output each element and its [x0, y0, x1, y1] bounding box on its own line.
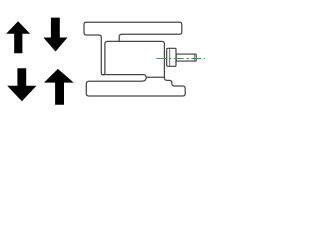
boss (contact pad) left side rising to the bar	[119, 34, 122, 41]
arrow up (top-left)	[6, 21, 30, 53]
connector flange	[167, 48, 176, 66]
stud end cap line	[193, 54, 195, 61]
connector stud	[176, 54, 196, 61]
top mounting bar	[84, 22, 182, 35]
arrow up (bottom-right)	[44, 69, 74, 105]
flange ring line	[169, 48, 171, 66]
load-cell body: slit, top edge, right edge; base plate with pedestal step	[86, 35, 185, 96]
green dash-dot centerline	[156, 58, 205, 60]
arrow down (bottom-left)	[7, 68, 36, 101]
strain slit between body and pedestal	[146, 76, 164, 78]
arrow down (top-right)	[43, 18, 67, 52]
